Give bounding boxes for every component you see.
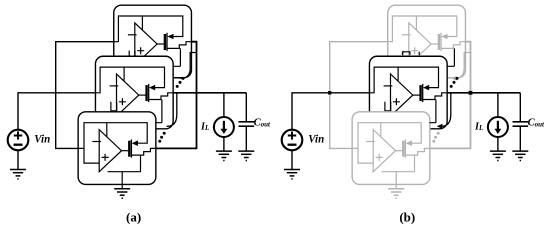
svg-text:IL: IL — [474, 121, 483, 132]
svg-text:Vin: Vin — [308, 133, 324, 145]
svg-text:Vin: Vin — [34, 133, 50, 145]
svg-text:Cout: Cout — [528, 117, 545, 128]
svg-text:(a): (a) — [126, 210, 141, 225]
svg-text:IL: IL — [200, 121, 209, 132]
svg-text:(b): (b) — [399, 210, 415, 225]
svg-text:Cout: Cout — [254, 117, 271, 128]
